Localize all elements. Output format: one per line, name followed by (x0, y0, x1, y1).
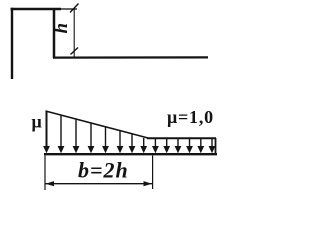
dimension arrow right (144, 181, 153, 186)
roof lower level line (53, 56, 208, 58)
load baseline (44, 153, 217, 155)
dimension line b (46, 183, 153, 185)
load top flat line (147, 137, 216, 139)
load arrow heads (43, 146, 215, 153)
load top sloping line (46, 111, 149, 138)
dimension tick top (70, 4, 79, 13)
dimension arrow left (46, 181, 55, 186)
extension line left (44, 156, 46, 191)
parapet step line (53, 8, 56, 58)
roof upper level line (11, 8, 62, 10)
dimension tick bottom (71, 48, 79, 55)
dimension line h (73, 8, 75, 57)
extension line right (152, 156, 154, 190)
svg-text:μ=1,0: μ=1,0 (167, 107, 214, 127)
load right end edge (215, 138, 217, 154)
load arrow shafts (47, 111, 213, 147)
dimension extension line (top, thin) (61, 8, 77, 10)
svg-text:b=2h: b=2h (78, 158, 129, 183)
svg-text:h: h (51, 23, 72, 34)
left wall line (11, 8, 13, 79)
svg-text:μ: μ (32, 112, 42, 132)
